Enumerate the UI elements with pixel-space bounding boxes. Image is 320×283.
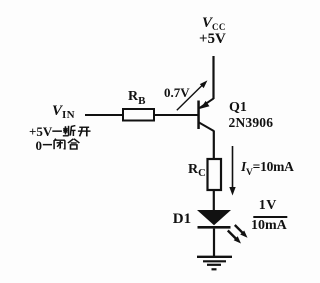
diode D1 triangle xyxy=(197,210,231,225)
diode D1 cathode bar xyxy=(198,226,231,229)
node Vin label xyxy=(52,104,75,119)
fraction bar 1V/10mA xyxy=(253,216,287,218)
LED light arrow 2 xyxy=(228,231,241,244)
Vcc value +5V xyxy=(199,32,226,47)
wire Vcc rail to emitter xyxy=(212,56,214,99)
fraction denominator 10mA xyxy=(251,219,287,233)
transistor Q1 base bar xyxy=(197,101,200,130)
resistor RC label xyxy=(188,163,206,177)
transistor value 2N3906 xyxy=(229,116,274,130)
hanzi he (together) xyxy=(68,139,80,149)
dash after +5V xyxy=(52,130,62,132)
transistor Q1 collector diagonal xyxy=(199,123,214,132)
Vin legend 0 = closed xyxy=(36,139,43,152)
resistor RB xyxy=(123,109,154,121)
hanzi duan (break) xyxy=(63,126,76,136)
wire collector to RC xyxy=(213,131,215,160)
resistor RB label xyxy=(128,90,145,104)
LED light arrow 1 xyxy=(235,225,248,238)
transistor Q1 label xyxy=(229,101,247,115)
current Iv arrow xyxy=(229,146,235,196)
diode D1 label xyxy=(173,212,191,227)
fraction numerator 1V xyxy=(259,199,277,213)
0.7V annotation arrow xyxy=(177,80,208,110)
node Vcc label xyxy=(202,16,226,31)
resistor RC xyxy=(208,159,222,190)
hanzi bi (close) xyxy=(54,139,65,150)
wire D1 to ground xyxy=(213,229,215,256)
dash after 0 xyxy=(43,144,52,146)
transistor Q1 emitter arrow (PNP) xyxy=(200,101,209,109)
Vin legend +5V = open xyxy=(29,125,52,138)
wire base from Vin to Q1 xyxy=(85,114,198,116)
ground xyxy=(197,257,232,270)
0.7V label xyxy=(164,86,190,99)
current Iv value label xyxy=(241,160,294,175)
transistor Q1 emitter diagonal xyxy=(199,98,213,108)
hanzi kai (open) xyxy=(78,127,91,136)
wire RC to D1 xyxy=(213,190,215,211)
